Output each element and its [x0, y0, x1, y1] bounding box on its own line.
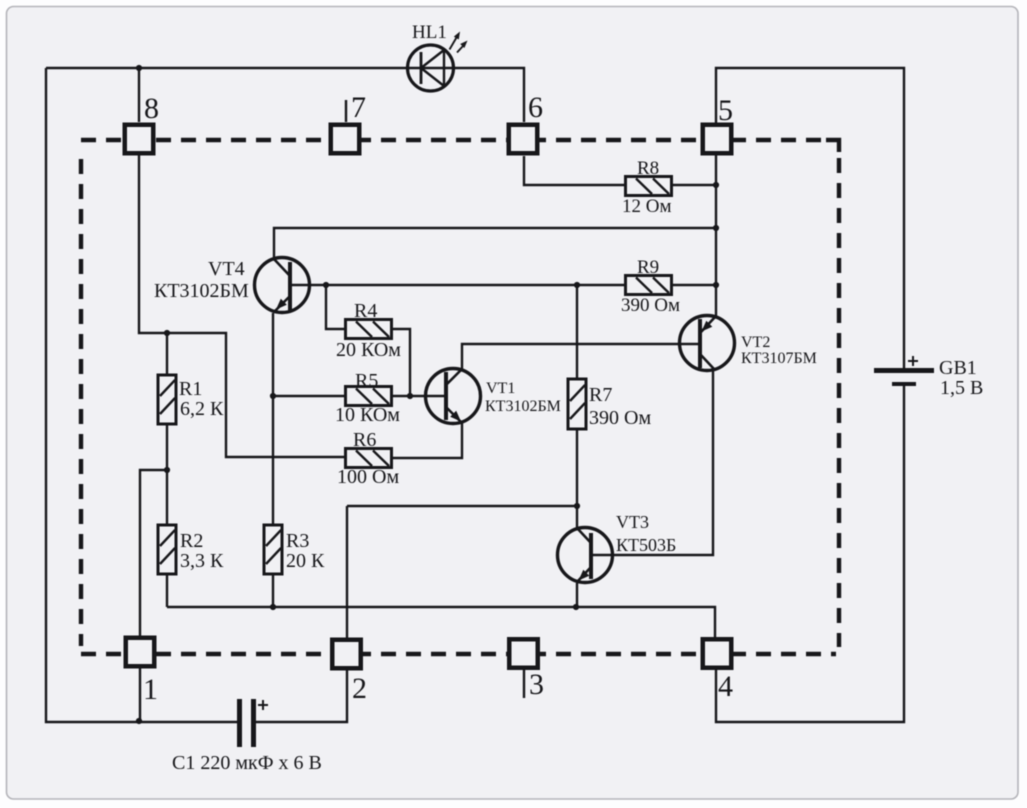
svg-text:КТ3102БМ: КТ3102БМ [485, 398, 561, 415]
svg-text:20 КОм: 20 КОм [336, 339, 401, 361]
svg-text:КТ3107БМ: КТ3107БМ [741, 350, 817, 367]
svg-text:GB1: GB1 [939, 357, 977, 379]
svg-text:R6: R6 [353, 429, 376, 451]
svg-text:R9: R9 [637, 257, 659, 278]
svg-text:R3: R3 [286, 530, 309, 552]
svg-text:C1 220 мкФ х 6 В: C1 220 мкФ х 6 В [172, 752, 322, 774]
svg-text:VT4: VT4 [208, 258, 245, 280]
svg-text:VT2: VT2 [741, 334, 770, 351]
svg-text:100 Ом: 100 Ом [337, 466, 399, 488]
svg-text:VT3: VT3 [616, 512, 649, 532]
svg-text:5: 5 [718, 94, 733, 127]
svg-text:4: 4 [718, 670, 733, 703]
svg-text:R8: R8 [637, 158, 659, 179]
svg-text:3,3 К: 3,3 К [180, 550, 224, 572]
svg-text:HL1: HL1 [412, 22, 447, 43]
svg-text:8: 8 [144, 92, 159, 125]
svg-text:1,5 В: 1,5 В [940, 377, 983, 399]
svg-text:R4: R4 [354, 300, 377, 322]
svg-text:390 Ом: 390 Ом [589, 407, 651, 429]
svg-text:R1: R1 [179, 378, 202, 400]
svg-text:КТ503Б: КТ503Б [616, 535, 676, 555]
svg-text:12 Ом: 12 Ом [622, 196, 672, 217]
svg-text:КТ3102БМ: КТ3102БМ [154, 280, 249, 302]
svg-text:390 Ом: 390 Ом [621, 295, 680, 316]
svg-text:1: 1 [143, 673, 158, 706]
svg-text:6: 6 [528, 91, 543, 124]
svg-text:R5: R5 [355, 370, 378, 392]
svg-text:7: 7 [351, 91, 366, 124]
svg-text:10 КОм: 10 КОм [335, 404, 400, 426]
svg-text:VT1: VT1 [486, 380, 515, 397]
svg-text:R2: R2 [180, 530, 203, 552]
svg-text:R7: R7 [589, 384, 612, 406]
svg-text:6,2 К: 6,2 К [180, 398, 224, 420]
svg-text:3: 3 [529, 668, 544, 701]
svg-text:20 К: 20 К [286, 550, 325, 572]
svg-text:2: 2 [352, 672, 367, 705]
